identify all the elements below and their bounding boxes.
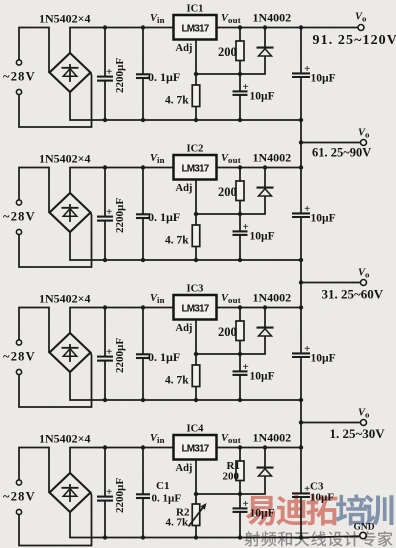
svg-text:1N5402×4: 1N5402×4 bbox=[39, 292, 91, 306]
svg-text:1N5402×4: 1N5402×4 bbox=[39, 432, 91, 446]
junction 2200uF bottom (stage 4) bbox=[103, 535, 107, 539]
wire Adj pin down (stage 3) bbox=[195, 320, 197, 355]
svg-text:IC2: IC2 bbox=[187, 144, 204, 155]
resistor 4.7k (stage 1) bbox=[192, 74, 200, 120]
watermark slogan characters bbox=[244, 531, 392, 546]
wire inter-stage connector 1-2 bbox=[300, 120, 302, 168]
svg-text:200: 200 bbox=[223, 471, 240, 483]
junction Vout/200 node (stage 4) bbox=[238, 445, 242, 449]
svg-text:Vout: Vout bbox=[221, 433, 241, 445]
svg-text:1. 25~30V: 1. 25~30V bbox=[330, 426, 386, 441]
svg-text:200: 200 bbox=[218, 185, 237, 199]
wire Adj pin down (stage 1) bbox=[195, 40, 197, 75]
regulator IC3 LM317 bbox=[174, 295, 217, 320]
svg-text:10µF: 10µF bbox=[311, 73, 336, 85]
junction 2200uF top (stage 1) bbox=[103, 25, 107, 29]
AC input terminal top (stage 3) bbox=[16, 340, 21, 345]
svg-text:IC1: IC1 bbox=[187, 4, 204, 15]
junction output cap node (stage 1) bbox=[299, 25, 303, 29]
svg-text:+: + bbox=[304, 63, 310, 75]
junction diode top node (stage 4) bbox=[263, 445, 267, 449]
junction gnd rail right (stage 2) bbox=[299, 258, 303, 262]
svg-text:1N4002: 1N4002 bbox=[253, 291, 292, 305]
svg-text:1N5402×4: 1N5402×4 bbox=[39, 12, 91, 26]
regulator IC4 LM317 bbox=[174, 435, 217, 460]
svg-text:+: + bbox=[106, 66, 112, 78]
svg-text:4. 7k: 4. 7k bbox=[165, 235, 189, 247]
junction Vout/200 node (stage 1) bbox=[238, 25, 242, 29]
svg-text:1N5402×4: 1N5402×4 bbox=[39, 152, 91, 166]
svg-text:2200µF: 2200µF bbox=[114, 338, 126, 373]
diode 1N4002 (stage 2) bbox=[240, 168, 274, 215]
svg-text:+: + bbox=[304, 343, 310, 355]
svg-text:10µF: 10µF bbox=[310, 492, 334, 504]
wire Vo tap stage 3 bbox=[301, 282, 361, 284]
wire DC+ : bridge top to Vin rail bbox=[70, 28, 174, 54]
wire Vout rail (stage 4) bbox=[217, 447, 302, 449]
svg-text:~28V: ~28V bbox=[3, 210, 36, 224]
wire AC2: bridge right vertex to bottom terminal bbox=[19, 73, 92, 128]
capacitor 10uF output (stage 1) bbox=[292, 28, 310, 121]
wire Adj node horizontal (stage 3) bbox=[196, 353, 240, 355]
svg-text:10µF: 10µF bbox=[311, 213, 336, 225]
capacitor 10uF at Adj (stage 3) bbox=[233, 354, 249, 400]
bridge rectifier 1N5402x4 (stage 3) bbox=[50, 333, 91, 372]
svg-text:+: + bbox=[243, 221, 249, 233]
junction 10uF bottom (stage 4) bbox=[238, 535, 242, 539]
wire Adj node horizontal (stage 2) bbox=[196, 213, 240, 215]
capacitor 2200uF (stage 1) bbox=[97, 28, 113, 121]
svg-text:10µF: 10µF bbox=[250, 371, 275, 383]
junction Vo tap stage 3 bbox=[299, 280, 303, 284]
capacitor 2200uF (stage 2) bbox=[97, 168, 113, 261]
wire Adj node horizontal (stage 1) bbox=[196, 73, 240, 75]
svg-text:2200µF: 2200µF bbox=[114, 58, 126, 93]
junction diode top node (stage 3) bbox=[263, 305, 267, 309]
wire DC- : bridge bottom to ground rail bbox=[70, 92, 301, 120]
resistor 200 (stage 4) bbox=[236, 448, 244, 495]
junction output cap node (stage 4) bbox=[299, 445, 303, 449]
svg-text:+: + bbox=[304, 203, 310, 215]
svg-text:4. 7k: 4. 7k bbox=[165, 95, 189, 107]
svg-text:61. 25~90V: 61. 25~90V bbox=[312, 146, 371, 160]
diode 1N4002 (stage 4) bbox=[240, 448, 274, 495]
capacitor 10uF at Adj (stage 2) bbox=[233, 214, 249, 260]
wire DC- : bridge bottom to ground rail bbox=[70, 372, 301, 400]
wire AC2: bridge right vertex to bottom terminal bbox=[19, 493, 92, 546]
junction Adj node left (stage 3) bbox=[194, 352, 198, 356]
junction 10uF bottom (stage 3) bbox=[238, 398, 242, 402]
wire AC1: top terminal to bridge left vertex bbox=[19, 448, 49, 493]
svg-text:LM317: LM317 bbox=[181, 444, 209, 455]
capacitor 2200uF (stage 3) bbox=[97, 308, 113, 401]
junction 4.7k bottom (stage 2) bbox=[194, 258, 198, 262]
junction 2200uF top (stage 3) bbox=[103, 305, 107, 309]
svg-text:C1: C1 bbox=[156, 480, 169, 492]
junction gnd rail right (stage 3) bbox=[299, 398, 303, 402]
junction 2200uF top (stage 2) bbox=[103, 165, 107, 169]
junction Vo tap stage 4 bbox=[299, 420, 303, 424]
svg-text:LM317: LM317 bbox=[181, 164, 209, 175]
resistor 200 (stage 3) bbox=[236, 308, 244, 355]
junction 0.1uF bottom (stage 4) bbox=[141, 535, 145, 539]
svg-text:2200µF: 2200µF bbox=[114, 478, 126, 513]
svg-text:~28V: ~28V bbox=[3, 70, 36, 84]
svg-text:Vout: Vout bbox=[221, 13, 241, 25]
capacitor 0.1uF (stage 1) bbox=[136, 28, 150, 121]
wire AC1: top terminal to bridge left vertex bbox=[19, 308, 49, 353]
svg-text:Vin: Vin bbox=[150, 13, 165, 25]
junction diode top node (stage 1) bbox=[263, 25, 267, 29]
wire Vo tap stage 2 bbox=[301, 142, 361, 144]
junction Vout/200 node (stage 2) bbox=[238, 165, 242, 169]
AC input terminal bottom (stage 1) bbox=[16, 89, 21, 94]
diode 1N4002 (stage 3) bbox=[240, 308, 274, 355]
wire ground rail extension bbox=[301, 536, 367, 538]
svg-text:+: + bbox=[243, 361, 249, 373]
svg-text:1N4002: 1N4002 bbox=[253, 431, 292, 445]
svg-text:Vout: Vout bbox=[221, 293, 241, 305]
wire DC- : bridge bottom to ground rail bbox=[70, 232, 301, 260]
svg-text:31. 25~60V: 31. 25~60V bbox=[322, 287, 384, 302]
svg-text:IC3: IC3 bbox=[187, 284, 204, 295]
junction Adj node left (stage 2) bbox=[194, 212, 198, 216]
svg-text:Vin: Vin bbox=[150, 153, 165, 165]
wire Vo tap stage 4 bbox=[301, 422, 361, 424]
junction Vout/200 node (stage 3) bbox=[238, 305, 242, 309]
svg-text:0. 1µF: 0. 1µF bbox=[148, 350, 180, 364]
junction 2200uF top (stage 4) bbox=[103, 445, 107, 449]
svg-text:Vin: Vin bbox=[150, 293, 165, 305]
resistor 4.7k (stage 4) bbox=[189, 494, 207, 538]
junction Vin node (stage 4) bbox=[141, 445, 145, 449]
junction Vin node (stage 1) bbox=[141, 25, 145, 29]
capacitor 0.1uF (stage 2) bbox=[136, 168, 150, 261]
svg-text:91. 25~120V: 91. 25~120V bbox=[313, 33, 396, 48]
junction 2200uF bottom (stage 3) bbox=[103, 398, 107, 402]
svg-text:LM317: LM317 bbox=[181, 304, 209, 315]
wire AC2: bridge right vertex to bottom terminal bbox=[19, 213, 92, 268]
capacitor 0.1uF (stage 3) bbox=[136, 308, 150, 401]
bridge rectifier 1N5402x4 (stage 1) bbox=[50, 53, 91, 92]
junction gnd rail right (stage 1) bbox=[299, 118, 303, 122]
svg-text:Adj: Adj bbox=[176, 463, 193, 474]
svg-text:Vo: Vo bbox=[358, 268, 370, 280]
wire Adj pin down (stage 4) bbox=[195, 460, 197, 495]
wire DC- : bridge bottom to ground rail bbox=[70, 512, 301, 538]
capacitor 10uF at Adj (stage 1) bbox=[233, 74, 249, 120]
diode 1N4002 (stage 1) bbox=[240, 28, 274, 75]
svg-text:0. 1µF: 0. 1µF bbox=[148, 70, 180, 84]
svg-text:+: + bbox=[243, 498, 249, 510]
junction Adj node right (stage 3) bbox=[238, 352, 242, 356]
svg-text:GND: GND bbox=[354, 523, 375, 533]
wire AC1: top terminal to bridge left vertex bbox=[19, 168, 49, 213]
svg-text:+: + bbox=[106, 206, 112, 218]
AC input terminal top (stage 1) bbox=[16, 60, 21, 65]
junction Vo tap stage 2 bbox=[299, 140, 303, 144]
junction diode top node (stage 2) bbox=[263, 165, 267, 169]
svg-text:1N4002: 1N4002 bbox=[253, 11, 292, 25]
svg-text:~28V: ~28V bbox=[3, 350, 36, 364]
svg-text:Adj: Adj bbox=[176, 183, 193, 194]
junction 0.1uF bottom (stage 1) bbox=[141, 118, 145, 122]
resistor 200 (stage 1) bbox=[236, 28, 244, 75]
svg-text:IC4: IC4 bbox=[187, 424, 205, 435]
capacitor 2200uF (stage 4) bbox=[97, 448, 113, 538]
junction Adj node left (stage 4) bbox=[194, 492, 198, 496]
AC input terminal top (stage 2) bbox=[16, 200, 21, 205]
junction 10uF bottom (stage 2) bbox=[238, 258, 242, 262]
wire Vout rail (stage 2) bbox=[217, 167, 302, 169]
svg-text:Adj: Adj bbox=[176, 43, 193, 54]
svg-text:~28V: ~28V bbox=[3, 490, 36, 504]
wire Adj pin down (stage 2) bbox=[195, 180, 197, 215]
svg-text:10µF: 10µF bbox=[250, 91, 275, 103]
svg-text:4. 7k: 4. 7k bbox=[165, 375, 189, 387]
output terminal Vo stage 4 bbox=[361, 420, 367, 426]
junction Vin node (stage 2) bbox=[141, 165, 145, 169]
svg-text:2200µF: 2200µF bbox=[114, 198, 126, 233]
svg-text:Vin: Vin bbox=[150, 433, 165, 445]
junction 2200uF bottom (stage 1) bbox=[103, 118, 107, 122]
junction 0.1uF bottom (stage 3) bbox=[141, 398, 145, 402]
wire inter-stage connector 2-3 bbox=[300, 260, 302, 308]
svg-text:Vo: Vo bbox=[355, 12, 367, 24]
svg-text:10µF: 10µF bbox=[311, 353, 336, 365]
watermark brand characters bbox=[246, 494, 394, 525]
svg-text:Vo: Vo bbox=[358, 128, 370, 140]
junction 4.7k bottom (stage 4) bbox=[194, 535, 198, 539]
bridge rectifier 1N5402x4 (stage 4) bbox=[50, 473, 91, 512]
svg-text:0. 1µF: 0. 1µF bbox=[148, 210, 180, 224]
svg-text:Vout: Vout bbox=[221, 153, 241, 165]
junction 0.1uF bottom (stage 2) bbox=[141, 258, 145, 262]
svg-text:LM317: LM317 bbox=[181, 24, 209, 35]
wire Vout rail (stage 3) bbox=[217, 307, 302, 309]
capacitor 0.1uF (stage 4) bbox=[136, 448, 150, 538]
svg-text:1N4002: 1N4002 bbox=[253, 151, 292, 165]
svg-text:200: 200 bbox=[218, 45, 237, 59]
wire DC+ : bridge top to Vin rail bbox=[70, 448, 174, 474]
bridge rectifier 1N5402x4 (stage 2) bbox=[50, 193, 91, 232]
resistor 200 (stage 2) bbox=[236, 168, 244, 215]
capacitor 10uF output (stage 3) bbox=[292, 308, 310, 401]
junction Adj node right (stage 1) bbox=[238, 72, 242, 76]
output terminal Vo stage 2 bbox=[361, 140, 367, 146]
wire inter-stage connector 3-4 bbox=[300, 400, 302, 448]
wire AC1: top terminal to bridge left vertex bbox=[19, 28, 49, 73]
wire DC+ : bridge top to Vin rail bbox=[70, 308, 174, 334]
junction Adj node right (stage 4) bbox=[238, 492, 242, 496]
junction Adj node left (stage 1) bbox=[194, 72, 198, 76]
capacitor 10uF output (stage 4) bbox=[292, 448, 310, 538]
regulator IC1 LM317 bbox=[174, 15, 217, 40]
capacitor 10uF output (stage 2) bbox=[292, 168, 310, 261]
svg-text:Vo: Vo bbox=[358, 408, 370, 420]
junction output cap node (stage 2) bbox=[299, 165, 303, 169]
junction output cap node (stage 3) bbox=[299, 305, 303, 309]
svg-text:+: + bbox=[243, 81, 249, 93]
resistor 4.7k (stage 2) bbox=[192, 214, 200, 260]
AC input terminal top (stage 4) bbox=[16, 480, 21, 485]
output terminal Vo stage 1 bbox=[358, 25, 364, 31]
svg-text:10µF: 10µF bbox=[250, 508, 275, 520]
regulator IC2 LM317 bbox=[174, 155, 217, 180]
svg-text:10µF: 10µF bbox=[250, 231, 275, 243]
wire AC2: bridge right vertex to bottom terminal bbox=[19, 353, 92, 408]
AC input terminal bottom (stage 3) bbox=[16, 369, 21, 374]
junction 4.7k bottom (stage 1) bbox=[194, 118, 198, 122]
svg-text:+: + bbox=[106, 346, 112, 358]
svg-text:200: 200 bbox=[218, 325, 237, 339]
wire output stage 1 bbox=[301, 27, 358, 29]
svg-text:Adj: Adj bbox=[176, 323, 193, 334]
junction Adj node right (stage 2) bbox=[238, 212, 242, 216]
svg-text:+: + bbox=[106, 486, 112, 498]
junction 4.7k bottom (stage 3) bbox=[194, 398, 198, 402]
output terminal Vo stage 3 bbox=[361, 280, 367, 286]
junction gnd rail right (stage 4) bbox=[299, 535, 303, 539]
wire DC+ : bridge top to Vin rail bbox=[70, 168, 174, 194]
wire Vout rail (stage 1) bbox=[217, 27, 302, 29]
wire Adj node horizontal (stage 4) bbox=[196, 493, 240, 495]
ground terminal GND bbox=[360, 532, 366, 538]
junction Vin node (stage 3) bbox=[141, 305, 145, 309]
svg-text:4. 7k: 4. 7k bbox=[166, 517, 190, 529]
capacitor 10uF at Adj (stage 4) bbox=[233, 494, 249, 538]
junction 2200uF bottom (stage 2) bbox=[103, 258, 107, 262]
junction 10uF bottom (stage 1) bbox=[238, 118, 242, 122]
resistor 4.7k (stage 3) bbox=[192, 354, 200, 400]
svg-text:0. 1µF: 0. 1µF bbox=[152, 493, 182, 505]
AC input terminal bottom (stage 4) bbox=[16, 509, 21, 514]
AC input terminal bottom (stage 2) bbox=[16, 229, 21, 234]
